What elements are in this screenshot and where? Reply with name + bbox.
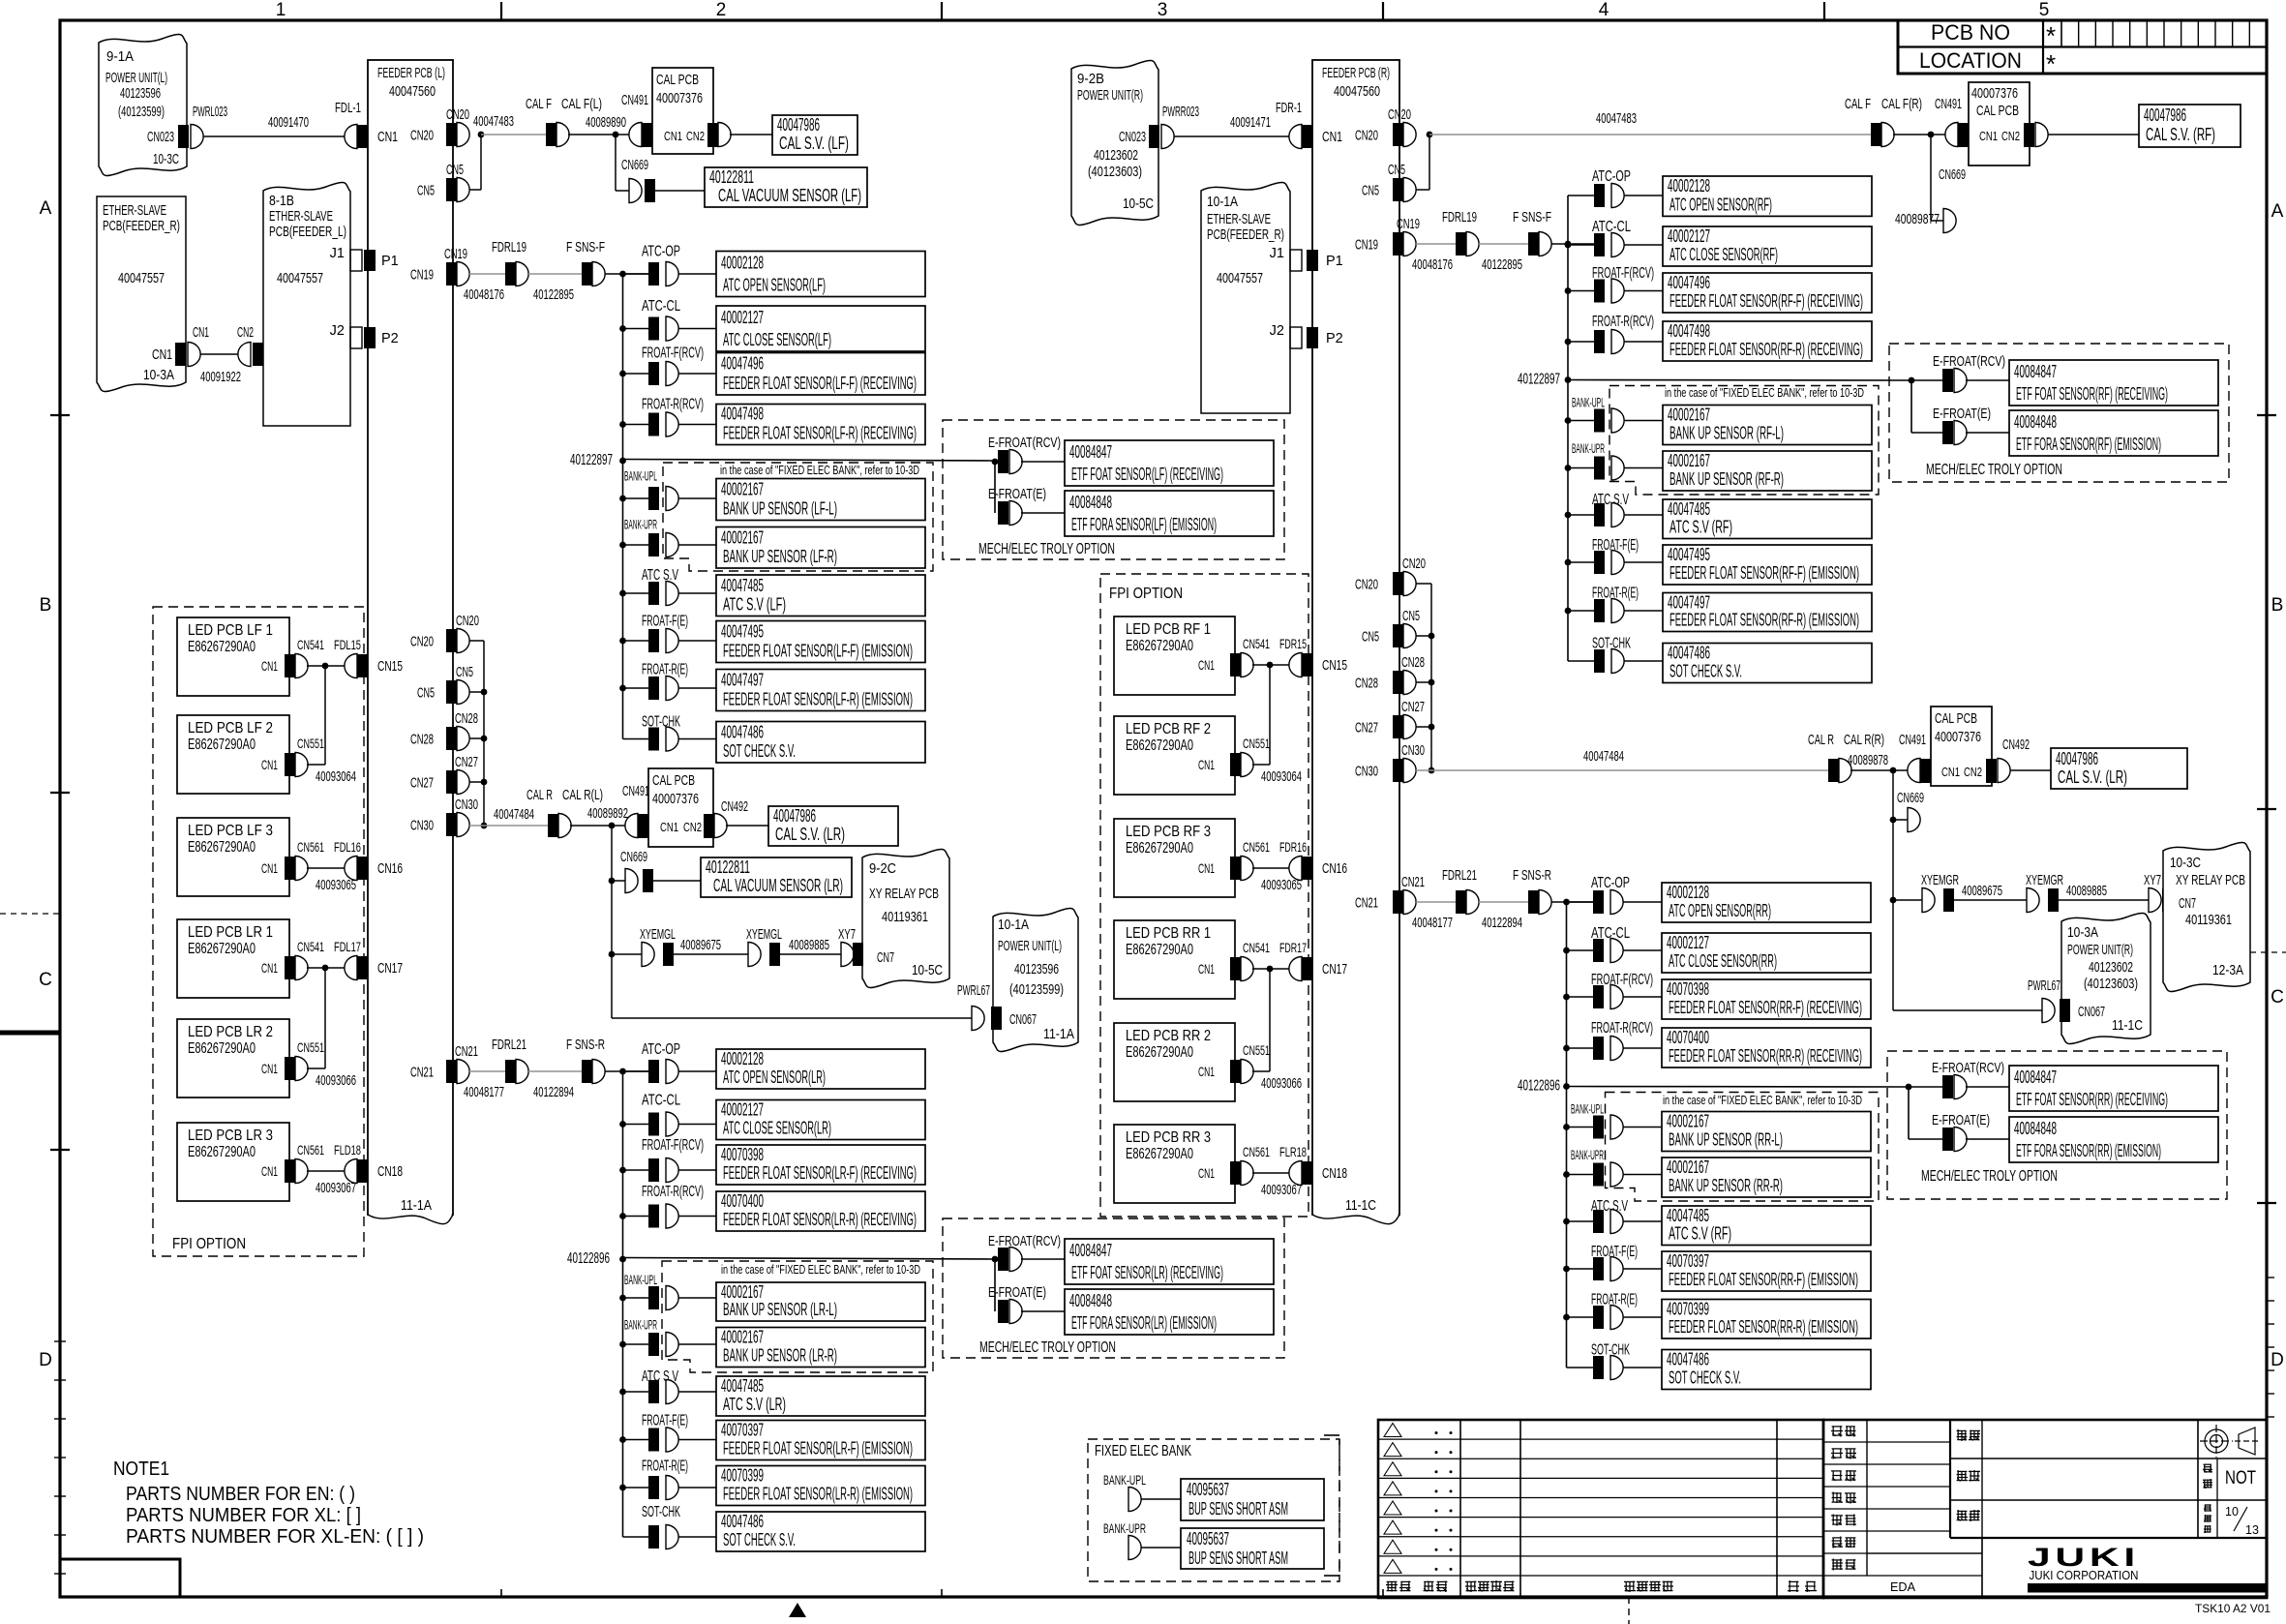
svg-text:TSK10 A2 V01: TSK10 A2 V01 bbox=[2195, 1604, 2271, 1615]
svg-text:40002167: 40002167 bbox=[721, 1328, 764, 1347]
svg-text:40007376: 40007376 bbox=[1971, 85, 2018, 102]
svg-text:CAL F: CAL F bbox=[1845, 97, 1871, 112]
svg-text:40047496: 40047496 bbox=[721, 354, 764, 374]
svg-text:10-1A: 10-1A bbox=[998, 917, 1029, 933]
wire to PWRL67 (left) bbox=[611, 954, 613, 1018]
svg-text:F SNS-R: F SNS-R bbox=[1513, 868, 1551, 884]
svg-text:12-3A: 12-3A bbox=[2212, 962, 2243, 978]
svg-text:40047485: 40047485 bbox=[1668, 499, 1710, 519]
svg-text:MECH/ELEC TROLY OPTION: MECH/ELEC TROLY OPTION bbox=[1921, 1168, 2058, 1185]
svg-text:CAL PCB: CAL PCB bbox=[1935, 710, 1977, 727]
svg-text:CN18: CN18 bbox=[377, 1164, 403, 1180]
svg-text:40122897: 40122897 bbox=[570, 452, 613, 468]
svg-text:FEEDER FLOAT SENSOR(RF-F) (RE: FEEDER FLOAT SENSOR(RF-F) (RECEIVING) bbox=[1669, 291, 1863, 311]
svg-text:FEEDER FLOAT SENSOR(LF-F) (RE: FEEDER FLOAT SENSOR(LF-F) (RECEIVING) bbox=[723, 374, 917, 393]
bup sens short asm box 2 bbox=[1181, 1528, 1324, 1569]
svg-text:LED PCB LR 3: LED PCB LR 3 bbox=[188, 1128, 273, 1144]
svg-text:40070399: 40070399 bbox=[1667, 1300, 1709, 1319]
svg-text:40047485: 40047485 bbox=[721, 576, 764, 595]
svg-text:CN20: CN20 bbox=[1388, 107, 1411, 123]
svg-text:CN5: CN5 bbox=[456, 665, 473, 680]
svg-text:E-FROAT(E): E-FROAT(E) bbox=[988, 486, 1046, 502]
mech/elec troly option box LR bbox=[943, 1218, 1284, 1358]
svg-text:ATC-OP: ATC-OP bbox=[642, 1041, 680, 1058]
svg-text:40093064: 40093064 bbox=[1261, 768, 1302, 785]
svg-text:E86267290A0: E86267290A0 bbox=[1126, 737, 1193, 754]
left fold marks bbox=[0, 913, 60, 915]
row boundary ticks left bbox=[50, 414, 70, 416]
svg-text:ETF FORA SENSOR(LF) (EMISSION): ETF FORA SENSOR(LF) (EMISSION) bbox=[1071, 515, 1217, 534]
svg-text:FDR15: FDR15 bbox=[1279, 636, 1307, 651]
svg-text:ATC-OP: ATC-OP bbox=[1591, 875, 1630, 891]
svg-text:40122811: 40122811 bbox=[706, 857, 750, 877]
svg-text:(40123599): (40123599) bbox=[1009, 981, 1064, 998]
svg-text:C: C bbox=[39, 970, 52, 990]
led pcb box LED PCB RR 3 bbox=[1114, 1125, 1235, 1203]
svg-text:XY RELAY PCB: XY RELAY PCB bbox=[2176, 872, 2245, 888]
svg-text:40047497: 40047497 bbox=[721, 671, 764, 690]
cal pcb box (RR) bbox=[1931, 707, 1992, 786]
fixed elec bank box bbox=[1088, 1439, 1339, 1581]
RR sensor trunk bbox=[1566, 902, 1568, 1368]
bottom center dashed fold line bbox=[1628, 1597, 1630, 1624]
svg-text:ETHER-SLAVE: ETHER-SLAVE bbox=[103, 202, 166, 219]
bottom-left corner box bbox=[60, 1559, 180, 1597]
svg-text:FEEDER FLOAT SENSOR(LR-F) (EM: FEEDER FLOAT SENSOR(LR-F) (EMISSION) bbox=[723, 1439, 913, 1459]
led pcb box LED PCB RR 2 bbox=[1114, 1023, 1235, 1101]
svg-text:E86267290A0: E86267290A0 bbox=[1126, 638, 1193, 654]
cal sv LR box bbox=[768, 806, 898, 846]
svg-text:40047986: 40047986 bbox=[773, 806, 816, 826]
svg-text:BANK UP SENSOR (RR-R): BANK UP SENSOR (RR-R) bbox=[1669, 1176, 1783, 1195]
svg-text:11-1A: 11-1A bbox=[1043, 1026, 1074, 1042]
connector E-FROAT(E) LR bbox=[994, 1259, 996, 1311]
svg-text:CN023: CN023 bbox=[1119, 130, 1146, 145]
svg-text:ATC S.V (LR): ATC S.V (LR) bbox=[723, 1395, 786, 1414]
svg-text:FEEDER FLOAT SENSOR(RF-R) (RE: FEEDER FLOAT SENSOR(RF-R) (RECEIVING) bbox=[1669, 340, 1863, 359]
svg-text:CAL F(R): CAL F(R) bbox=[1881, 97, 1922, 112]
svg-text:CN30: CN30 bbox=[1401, 743, 1425, 759]
svg-text:BANK UP SENSOR (LR-R): BANK UP SENSOR (LR-R) bbox=[723, 1346, 837, 1366]
svg-text:BANK-UPR: BANK-UPR bbox=[1572, 440, 1605, 456]
svg-text:FROAT-F(RCV): FROAT-F(RCV) bbox=[642, 1137, 704, 1154]
svg-text:40002127: 40002127 bbox=[1667, 933, 1709, 952]
svg-text:40070398: 40070398 bbox=[721, 1145, 764, 1164]
svg-text:CN16: CN16 bbox=[1322, 861, 1347, 877]
svg-text:J2: J2 bbox=[1270, 323, 1284, 339]
svg-text:FDRL21: FDRL21 bbox=[492, 1038, 526, 1053]
svg-text:10-3C: 10-3C bbox=[153, 151, 179, 167]
top column ticks bbox=[500, 2, 502, 20]
svg-text:LED PCB LF 3: LED PCB LF 3 bbox=[188, 823, 273, 839]
bottom column ticks bbox=[500, 1589, 502, 1597]
svg-text:E86267290A0: E86267290A0 bbox=[1126, 1146, 1193, 1162]
dashed fixed-elec-bank box RR bbox=[1606, 1093, 1880, 1202]
svg-text:A: A bbox=[40, 198, 52, 219]
svg-text:40002128: 40002128 bbox=[1667, 883, 1709, 902]
svg-text:40007376: 40007376 bbox=[652, 791, 699, 807]
svg-text:40047484: 40047484 bbox=[494, 806, 534, 823]
wire LF to e-froat bbox=[623, 460, 996, 462]
svg-text:BANK-UPL: BANK-UPL bbox=[1103, 1472, 1146, 1488]
connector E-FROAT(E) RR bbox=[1908, 1087, 1910, 1139]
svg-text:D: D bbox=[39, 1350, 52, 1370]
svg-text:E86267290A0: E86267290A0 bbox=[1126, 942, 1193, 958]
svg-text:40002128: 40002128 bbox=[1668, 176, 1710, 195]
svg-text:FROAT-R(RCV): FROAT-R(RCV) bbox=[642, 397, 704, 413]
svg-text:FEEDER FLOAT SENSOR(RR-R) (RE: FEEDER FLOAT SENSOR(RR-R) (RECEIVING) bbox=[1669, 1046, 1862, 1066]
svg-text:2: 2 bbox=[716, 0, 727, 20]
mech/elec troly option box RF bbox=[1889, 344, 2229, 482]
svg-text:E-FROAT(RCV): E-FROAT(RCV) bbox=[988, 1233, 1061, 1249]
svg-text:P2: P2 bbox=[1326, 331, 1343, 346]
svg-text:40122897: 40122897 bbox=[1518, 372, 1560, 388]
svg-text:BANK-UPR: BANK-UPR bbox=[624, 517, 657, 532]
svg-text:CAL PCB: CAL PCB bbox=[1976, 103, 2019, 119]
svg-text:BANK UP SENSOR (LR-L): BANK UP SENSOR (LR-L) bbox=[723, 1300, 837, 1319]
svg-text:1: 1 bbox=[276, 0, 286, 20]
svg-text:FDR17: FDR17 bbox=[1279, 940, 1307, 955]
wire to CN491 (right F) bbox=[1893, 134, 1931, 135]
svg-text:CN669: CN669 bbox=[620, 850, 647, 865]
led pcb box LED PCB LF 1 bbox=[177, 617, 289, 696]
svg-text:40095637: 40095637 bbox=[1187, 1529, 1229, 1549]
svg-text:NOTE1: NOTE1 bbox=[113, 1459, 169, 1480]
svg-text:CN30: CN30 bbox=[455, 797, 478, 813]
svg-text:POWER UNIT(L): POWER UNIT(L) bbox=[998, 938, 1062, 954]
svg-text:BANK-UPR: BANK-UPR bbox=[1571, 1147, 1604, 1162]
led pcb box LED PCB LF 3 bbox=[177, 818, 289, 896]
svg-text:40084848: 40084848 bbox=[1069, 493, 1112, 512]
svg-text:CN21: CN21 bbox=[1355, 896, 1378, 912]
svg-text:40047557: 40047557 bbox=[1217, 270, 1263, 286]
connector CN2 out (LF cal pcb) bbox=[718, 123, 731, 147]
led pcb box LED PCB RF 3 bbox=[1114, 819, 1235, 897]
svg-text:40122894: 40122894 bbox=[1482, 915, 1522, 931]
model number block bbox=[1949, 1420, 1951, 1538]
svg-text:(40123603): (40123603) bbox=[1088, 164, 1142, 180]
svg-text:J2: J2 bbox=[330, 323, 345, 339]
svg-text:CN2: CN2 bbox=[237, 325, 254, 341]
svg-text:CN492: CN492 bbox=[721, 799, 748, 815]
svg-text:9-2B: 9-2B bbox=[1077, 71, 1104, 87]
svg-text:FROAT-F(RCV): FROAT-F(RCV) bbox=[1592, 265, 1654, 282]
led junction wires right bbox=[1267, 662, 1274, 669]
svg-text:SOT CHECK S.V.: SOT CHECK S.V. bbox=[1669, 662, 1742, 681]
svg-text:CN561: CN561 bbox=[297, 1142, 324, 1158]
cal pcb box (RF) bbox=[1969, 82, 2030, 165]
svg-text:*: * bbox=[2046, 21, 2056, 50]
svg-text:40123596: 40123596 bbox=[1014, 961, 1059, 977]
svg-text:40070397: 40070397 bbox=[721, 1421, 764, 1440]
svg-text:CAL PCB: CAL PCB bbox=[656, 72, 699, 88]
svg-text:E-FROAT(RCV): E-FROAT(RCV) bbox=[1932, 1060, 2004, 1076]
svg-text:40047486: 40047486 bbox=[721, 1512, 764, 1531]
right ruler ticks bbox=[2267, 1277, 2274, 1278]
svg-text:10-5C: 10-5C bbox=[912, 962, 943, 978]
svg-text:ATC S.V (RF): ATC S.V (RF) bbox=[1669, 518, 1732, 537]
svg-text:F SNS-F: F SNS-F bbox=[1513, 210, 1551, 226]
svg-text:ATC-OP: ATC-OP bbox=[1592, 168, 1631, 185]
svg-text:40048176: 40048176 bbox=[1412, 256, 1453, 273]
svg-text:CN491: CN491 bbox=[622, 784, 649, 799]
svg-text:CN669: CN669 bbox=[621, 158, 648, 173]
etf fora sensor RF box bbox=[2009, 410, 2218, 456]
svg-text:CN5: CN5 bbox=[1362, 630, 1379, 646]
svg-text:40047485: 40047485 bbox=[1667, 1206, 1709, 1225]
svg-text:10: 10 bbox=[2225, 1505, 2239, 1519]
svg-text:40093066: 40093066 bbox=[1261, 1075, 1302, 1092]
svg-text:ETHER-SLAVE: ETHER-SLAVE bbox=[1207, 211, 1271, 227]
svg-text:40093067: 40093067 bbox=[316, 1180, 356, 1196]
svg-text:FDL16: FDL16 bbox=[334, 839, 361, 855]
svg-text:CN20: CN20 bbox=[456, 614, 479, 629]
svg-text:FEEDER FLOAT SENSOR(LF-F) (EM: FEEDER FLOAT SENSOR(LF-F) (EMISSION) bbox=[723, 642, 913, 661]
svg-text:CN491: CN491 bbox=[1899, 733, 1926, 748]
svg-text:BANK-UPL: BANK-UPL bbox=[624, 468, 657, 484]
revision triangles bbox=[1384, 1424, 1401, 1437]
svg-text:in the case of "FIXED ELEC BAN: in the case of "FIXED ELEC BANK", refer … bbox=[720, 464, 919, 477]
svg-text:MECH/ELEC TROLY OPTION: MECH/ELEC TROLY OPTION bbox=[1926, 462, 2062, 478]
svg-text:ATC CLOSE SENSOR(LF): ATC CLOSE SENSOR(LF) bbox=[723, 330, 831, 349]
approval table bbox=[1823, 1420, 2267, 1598]
svg-text:CN669: CN669 bbox=[1939, 167, 1966, 183]
svg-text:CAL S.V. (LR): CAL S.V. (LR) bbox=[775, 825, 845, 844]
svg-text:CN1: CN1 bbox=[261, 658, 278, 674]
svg-text:40047486: 40047486 bbox=[1667, 1350, 1709, 1369]
svg-text:SOT-CHK: SOT-CHK bbox=[642, 1504, 680, 1520]
wire 40047484 (left) bbox=[469, 825, 548, 827]
svg-text:40122896: 40122896 bbox=[1518, 1078, 1560, 1095]
wire RF to e-froat bbox=[1568, 379, 1911, 382]
right fold mark bbox=[2250, 951, 2286, 953]
svg-text:PARTS NUMBER FOR XL: [ ]: PARTS NUMBER FOR XL: [ ] bbox=[126, 1505, 361, 1526]
svg-text:BUP SENS SHORT ASM: BUP SENS SHORT ASM bbox=[1188, 1499, 1288, 1519]
connector CN669 (RF) stub bbox=[1930, 135, 1932, 221]
fpi option box left bbox=[153, 607, 364, 1256]
svg-text:40119361: 40119361 bbox=[2185, 912, 2232, 928]
svg-text:CN5: CN5 bbox=[1402, 609, 1420, 624]
svg-text:ATC S.V: ATC S.V bbox=[642, 567, 678, 584]
wire 40089878 bbox=[1850, 769, 1908, 771]
svg-text:5: 5 bbox=[2039, 0, 2050, 20]
svg-text:CAL S.V. (LR): CAL S.V. (LR) bbox=[2058, 767, 2127, 787]
wire RR to e-froat bbox=[1567, 1086, 1910, 1089]
svg-text:40047484: 40047484 bbox=[1583, 748, 1624, 765]
svg-text:CAL R(R): CAL R(R) bbox=[1844, 733, 1884, 748]
svg-text:FDL-1: FDL-1 bbox=[335, 101, 361, 116]
svg-text:CN28: CN28 bbox=[1401, 655, 1425, 671]
svg-text:40047495: 40047495 bbox=[721, 622, 764, 642]
mech/elec troly option box LF bbox=[943, 420, 1284, 559]
svg-text:CN023: CN023 bbox=[147, 130, 174, 145]
connector CN669 (RR) stub bbox=[1892, 770, 1894, 820]
svg-text:E-FROAT(E): E-FROAT(E) bbox=[988, 1284, 1046, 1301]
svg-text:40089877: 40089877 bbox=[1895, 211, 1940, 227]
svg-text:*: * bbox=[2046, 49, 2056, 78]
wire CN19-FDRL19 bbox=[469, 273, 505, 275]
ether-slave pcb 10-1A box bbox=[1201, 183, 1290, 413]
svg-text:PARTS NUMBER FOR XL-EN: ( [ ]: PARTS NUMBER FOR XL-EN: ( [ ] ) bbox=[126, 1526, 424, 1548]
svg-text:XY RELAY PCB: XY RELAY PCB bbox=[869, 886, 939, 902]
svg-text:CN1: CN1 bbox=[261, 1061, 278, 1076]
svg-text:40122896: 40122896 bbox=[567, 1250, 610, 1267]
svg-text:CN1: CN1 bbox=[261, 860, 278, 876]
svg-text:CN551: CN551 bbox=[297, 736, 324, 751]
XYEMGR chain bbox=[1892, 820, 1894, 900]
bus CN20-CN30 right bbox=[1416, 583, 1431, 585]
wire 40091471 bbox=[1174, 135, 1290, 137]
svg-text:CN541: CN541 bbox=[297, 939, 324, 954]
svg-text:40093067: 40093067 bbox=[1261, 1182, 1302, 1198]
svg-text:LED PCB RF 1: LED PCB RF 1 bbox=[1126, 621, 1211, 638]
svg-text:(40123599): (40123599) bbox=[118, 104, 165, 120]
svg-text:9-2C: 9-2C bbox=[869, 860, 896, 877]
svg-text:40091922: 40091922 bbox=[200, 369, 241, 385]
svg-text:40048176: 40048176 bbox=[464, 286, 504, 303]
svg-text:40070400: 40070400 bbox=[1667, 1028, 1709, 1047]
svg-text:CN5: CN5 bbox=[417, 686, 435, 702]
svg-text:40047560: 40047560 bbox=[389, 83, 436, 100]
svg-text:CN1: CN1 bbox=[1941, 765, 1960, 779]
ether-slave pcb FEEDER_L box bbox=[263, 183, 350, 426]
svg-text:JUKI: JUKI bbox=[2028, 1543, 2140, 1572]
svg-text:40002167: 40002167 bbox=[1667, 1112, 1709, 1131]
svg-text:40119361: 40119361 bbox=[882, 909, 928, 925]
svg-text:40002167: 40002167 bbox=[721, 1282, 764, 1302]
LR sensor trunk bbox=[622, 1071, 624, 1537]
svg-text:CN27: CN27 bbox=[1355, 721, 1378, 737]
svg-text:E-FROAT(E): E-FROAT(E) bbox=[1932, 1112, 1990, 1128]
svg-text:PWRL023: PWRL023 bbox=[193, 105, 227, 120]
wire CN21-FDRL21 bbox=[469, 1070, 505, 1072]
revision table bbox=[1378, 1420, 1823, 1598]
svg-text:ETF FOAT SENSOR(RR) (RECEIVING: ETF FOAT SENSOR(RR) (RECEIVING) bbox=[2016, 1090, 2168, 1109]
svg-text:ETHER-SLAVE: ETHER-SLAVE bbox=[269, 208, 333, 225]
svg-text:FEEDER PCB (R): FEEDER PCB (R) bbox=[1322, 65, 1390, 81]
svg-text:CN1: CN1 bbox=[1322, 130, 1342, 145]
connector E-FROAT(E) RF bbox=[1910, 380, 1912, 433]
svg-text:E-FROAT(RCV): E-FROAT(RCV) bbox=[1933, 353, 2005, 370]
svg-text:PCB(FEEDER_R): PCB(FEEDER_R) bbox=[103, 218, 180, 234]
svg-text:40047557: 40047557 bbox=[277, 270, 323, 286]
svg-text:FEEDER FLOAT SENSOR(RR-F) (RE: FEEDER FLOAT SENSOR(RR-F) (RECEIVING) bbox=[1669, 998, 1862, 1017]
etf foat sensor RR box bbox=[2009, 1066, 2218, 1111]
svg-text:ATC-CL: ATC-CL bbox=[642, 1093, 680, 1109]
svg-text:40047986: 40047986 bbox=[2144, 105, 2186, 125]
RF sensor trunk bbox=[1567, 195, 1569, 661]
svg-text:CN551: CN551 bbox=[297, 1039, 324, 1055]
svg-text:CAL PCB: CAL PCB bbox=[652, 772, 695, 789]
svg-text:E86267290A0: E86267290A0 bbox=[1126, 1044, 1193, 1061]
svg-text:CN5: CN5 bbox=[1388, 163, 1405, 178]
svg-text:CAL R(L): CAL R(L) bbox=[562, 788, 603, 803]
svg-text:E86267290A0: E86267290A0 bbox=[188, 941, 256, 957]
svg-text:LED PCB LR 1: LED PCB LR 1 bbox=[188, 924, 273, 941]
svg-text:8-1B: 8-1B bbox=[269, 193, 294, 209]
svg-text:CAL F: CAL F bbox=[526, 97, 552, 112]
svg-text:PWRL67: PWRL67 bbox=[957, 983, 990, 999]
svg-text:FROAT-R(E): FROAT-R(E) bbox=[642, 1459, 688, 1475]
svg-text:B: B bbox=[40, 595, 52, 616]
svg-text:CN19: CN19 bbox=[410, 268, 434, 284]
svg-text:40048177: 40048177 bbox=[464, 1084, 504, 1100]
svg-text:SOT CHECK S.V.: SOT CHECK S.V. bbox=[1669, 1368, 1741, 1388]
connector CN023 bbox=[178, 125, 189, 148]
svg-text:CN20: CN20 bbox=[410, 635, 434, 650]
svg-text:40089885: 40089885 bbox=[789, 937, 829, 953]
svg-text:CN541: CN541 bbox=[1243, 940, 1270, 955]
svg-text:FROAT-R(E): FROAT-R(E) bbox=[642, 662, 688, 678]
svg-text:CN1: CN1 bbox=[261, 960, 278, 976]
svg-text:CN1: CN1 bbox=[1198, 657, 1215, 673]
power unit 10-3A box bbox=[2061, 914, 2151, 1044]
svg-text:JUKI CORPORATION: JUKI CORPORATION bbox=[2030, 1569, 2139, 1582]
svg-text:10-5C: 10-5C bbox=[1123, 195, 1154, 212]
svg-text:XYEMGR: XYEMGR bbox=[2026, 873, 2063, 888]
cal sv LF box bbox=[772, 115, 857, 155]
svg-text:CN067: CN067 bbox=[2078, 1005, 2105, 1020]
svg-text:BANK UP SENSOR (LF-R): BANK UP SENSOR (LF-R) bbox=[723, 547, 837, 566]
svg-text:LED PCB LR 2: LED PCB LR 2 bbox=[188, 1024, 273, 1040]
svg-text:J1: J1 bbox=[1270, 246, 1284, 261]
svg-text:CN20: CN20 bbox=[1355, 129, 1378, 144]
svg-text:FROAT-F(E): FROAT-F(E) bbox=[642, 1413, 688, 1429]
svg-text:CN5: CN5 bbox=[446, 163, 464, 178]
svg-text:ATC OPEN SENSOR(LR): ATC OPEN SENSOR(LR) bbox=[723, 1068, 826, 1087]
led pcb box LED PCB LF 2 bbox=[177, 715, 289, 794]
svg-text:40047495: 40047495 bbox=[1668, 545, 1710, 564]
svg-text:40002127: 40002127 bbox=[1668, 226, 1710, 246]
svg-text:ATC OPEN SENSOR(RR): ATC OPEN SENSOR(RR) bbox=[1669, 901, 1771, 920]
svg-text:CN20: CN20 bbox=[410, 129, 434, 144]
svg-text:CN2: CN2 bbox=[1964, 765, 1982, 779]
svg-text:FLD18: FLD18 bbox=[334, 1142, 361, 1158]
power unit 9-2B box bbox=[1071, 61, 1158, 226]
svg-text:POWER UNIT(R): POWER UNIT(R) bbox=[1077, 87, 1143, 104]
svg-text:BANK UP SENSOR (LF-L): BANK UP SENSOR (LF-L) bbox=[723, 499, 837, 519]
svg-text:FEEDER FLOAT SENSOR(LF-R) (RE: FEEDER FLOAT SENSOR(LF-R) (RECEIVING) bbox=[723, 424, 917, 443]
svg-text:CN669: CN669 bbox=[1897, 791, 1924, 806]
svg-text:PCB NO: PCB NO bbox=[1931, 20, 2010, 45]
svg-text:CN1: CN1 bbox=[1198, 757, 1215, 772]
led pcb box LED PCB RF 2 bbox=[1114, 716, 1235, 795]
svg-text:40047557: 40047557 bbox=[118, 270, 165, 286]
svg-text:40089890: 40089890 bbox=[586, 114, 626, 131]
svg-text:CAL R: CAL R bbox=[526, 788, 553, 803]
led pcb box LED PCB RF 1 bbox=[1114, 617, 1235, 695]
svg-text:FROAT-F(E): FROAT-F(E) bbox=[642, 614, 688, 630]
svg-text:LED PCB LF 2: LED PCB LF 2 bbox=[188, 720, 273, 737]
svg-text:40070399: 40070399 bbox=[721, 1466, 764, 1486]
bup sens short asm box 1 bbox=[1181, 1479, 1324, 1520]
svg-text:FEEDER FLOAT SENSOR(RR-R) (EM: FEEDER FLOAT SENSOR(RR-R) (EMISSION) bbox=[1669, 1317, 1858, 1337]
cal sv RF box bbox=[2139, 105, 2241, 147]
svg-text:40122895: 40122895 bbox=[1482, 256, 1522, 273]
svg-text:PARTS NUMBER FOR EN: ( ): PARTS NUMBER FOR EN: ( ) bbox=[126, 1484, 355, 1505]
wire to cal sv LF bbox=[730, 134, 772, 135]
svg-text:CN561: CN561 bbox=[297, 839, 324, 855]
svg-text:CN21: CN21 bbox=[1401, 875, 1425, 890]
svg-text:ATC OPEN SENSOR(LF): ATC OPEN SENSOR(LF) bbox=[723, 276, 826, 295]
svg-text:CN15: CN15 bbox=[1322, 658, 1347, 674]
led pcb box LED PCB RR 1 bbox=[1114, 920, 1235, 999]
mech/elec troly option box RR bbox=[1887, 1051, 2227, 1199]
svg-text:LOCATION: LOCATION bbox=[1919, 48, 2022, 73]
feeder pcb R box bbox=[1312, 60, 1399, 1215]
svg-text:LED PCB RF 2: LED PCB RF 2 bbox=[1126, 721, 1211, 737]
power unit 9-1A box bbox=[99, 35, 187, 176]
